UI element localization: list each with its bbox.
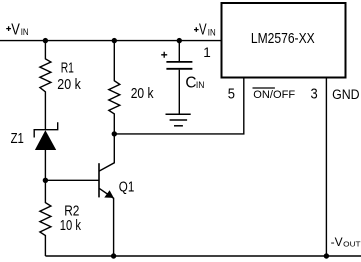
svg-text:10 k: 10 k bbox=[60, 218, 82, 234]
svg-text:IN: IN bbox=[196, 80, 205, 90]
svg-text:3: 3 bbox=[311, 85, 318, 102]
svg-text:V: V bbox=[11, 21, 20, 38]
svg-text:IN: IN bbox=[208, 27, 216, 37]
svg-text:V: V bbox=[199, 22, 207, 39]
svg-text:OUT: OUT bbox=[343, 240, 361, 249]
svg-text:Q1: Q1 bbox=[119, 180, 135, 196]
svg-text:LM2576-XX: LM2576-XX bbox=[251, 30, 315, 47]
svg-text:R1: R1 bbox=[61, 60, 74, 76]
svg-text:C: C bbox=[185, 74, 196, 91]
svg-text:20 k: 20 k bbox=[57, 77, 81, 93]
svg-text:Z1: Z1 bbox=[11, 131, 24, 147]
svg-text:-V: -V bbox=[331, 235, 344, 249]
svg-text:20 k: 20 k bbox=[131, 86, 154, 102]
svg-text:1: 1 bbox=[203, 45, 211, 60]
svg-text:GND: GND bbox=[332, 87, 360, 102]
svg-text:5: 5 bbox=[228, 85, 235, 102]
svg-text:ON/OFF: ON/OFF bbox=[253, 89, 295, 101]
svg-text:IN: IN bbox=[21, 27, 29, 37]
